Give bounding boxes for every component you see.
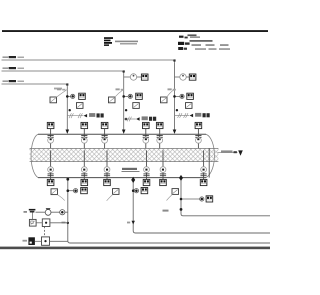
- control valve body: [45, 210, 51, 216]
- signal line C3: [175, 115, 190, 117]
- valve box A2: [50, 97, 57, 103]
- bottoms line E (x=133.2): [133, 178, 270, 233]
- bottom border bar: [0, 247, 270, 250]
- flanges: [201, 173, 207, 175]
- tap wire C y96: [175, 95, 180, 97]
- leader wire: [107, 194, 113, 200]
- flanges: [160, 173, 166, 175]
- junction dot B3: [125, 118, 128, 121]
- vessel right head: [206, 134, 214, 177]
- cluster note: [24, 211, 28, 213]
- dip tube: [162, 150, 164, 179]
- drop line C: [174, 62, 176, 129]
- tag text C3: [195, 113, 201, 117]
- level box T84.3: [81, 122, 88, 128]
- display box B1: [141, 74, 148, 80]
- level box T159.7: [156, 122, 163, 128]
- title block text right: [188, 34, 197, 36]
- arrowhead A3: [84, 114, 88, 117]
- display box F: [206, 196, 213, 202]
- spec break triangle: [238, 150, 243, 155]
- level box B203.6: [200, 179, 207, 185]
- dip tube: [203, 150, 205, 179]
- dip tube: [106, 150, 108, 179]
- valve label B: [116, 88, 120, 90]
- check valve: [60, 210, 65, 215]
- logic box A2b: [77, 103, 84, 109]
- arrowhead C3: [190, 114, 194, 117]
- wire: [137, 76, 142, 78]
- overflow tag: [221, 150, 233, 152]
- leader wire: [167, 89, 175, 97]
- internal circle: [144, 167, 150, 173]
- display box D: [81, 188, 88, 194]
- valve box C2: [161, 97, 168, 103]
- tap wire F y199: [181, 198, 200, 200]
- internal circle: [201, 167, 207, 173]
- display box C1: [189, 74, 196, 80]
- motor box dark: [28, 237, 35, 245]
- valve slash: [184, 113, 188, 118]
- level box B163.0: [160, 179, 167, 185]
- internal circle: [48, 167, 54, 173]
- title block logo right: [178, 36, 190, 50]
- feed line 2: [2, 71, 124, 73]
- flanges: [104, 173, 110, 175]
- control valve actuator: [46, 208, 51, 211]
- internal circle: [81, 137, 87, 143]
- leader wire: [115, 89, 124, 97]
- arrowhead B3: [136, 117, 140, 120]
- pump box 2: [42, 219, 50, 227]
- arrow E: [132, 221, 135, 225]
- bottoms line D (x=67.8): [68, 178, 270, 243]
- drop line B: [123, 73, 125, 129]
- internal circle: [102, 137, 108, 143]
- nozzle diamond E: [131, 177, 135, 183]
- transmitter circle B2: [128, 94, 132, 98]
- feed line 3: [2, 84, 68, 86]
- level box B84.3: [81, 179, 88, 185]
- feed line 3 label: [3, 80, 9, 82]
- vessel shell top: [38, 133, 206, 135]
- wire: [186, 76, 189, 78]
- tag text A3: [89, 113, 95, 117]
- valve slash: [78, 113, 82, 118]
- dip tube: [83, 150, 85, 179]
- signal line A3: [67, 115, 83, 117]
- display box E: [141, 188, 148, 194]
- pump box 1: [29, 219, 36, 226]
- junction dot F: [180, 208, 183, 211]
- tap wire B y96: [124, 95, 129, 97]
- stem: [50, 129, 52, 149]
- internal circle: [157, 137, 163, 143]
- tap wire D y190: [68, 190, 74, 192]
- cluster note 2: [23, 240, 28, 242]
- dip tube: [50, 150, 52, 179]
- vessel label: [122, 168, 137, 170]
- stem: [159, 129, 161, 149]
- drop line C arrow: [173, 130, 177, 134]
- wire to main line: [50, 240, 68, 242]
- overflow line right: [218, 152, 238, 154]
- display box B2: [136, 93, 143, 99]
- junction dot: [176, 109, 178, 111]
- leader wire: [167, 194, 173, 200]
- wire: [35, 240, 42, 242]
- stem scribble to pump box: [32, 213, 34, 220]
- nozzle diamond F: [179, 175, 183, 181]
- flanges: [143, 173, 149, 175]
- junction dot: [69, 109, 71, 111]
- valve box D2: [51, 189, 58, 195]
- leader wire: [58, 195, 65, 201]
- valve slash: [178, 113, 182, 118]
- valve label C: [168, 88, 172, 90]
- level box B146.5: [143, 179, 150, 185]
- title text left: [115, 41, 138, 43]
- note E: [127, 222, 130, 224]
- vessel shell bottom: [38, 177, 206, 179]
- controller circle C1: [180, 74, 186, 80]
- note F: [163, 210, 169, 212]
- transmitter circle C2: [180, 94, 184, 98]
- drop line B arrow: [122, 130, 126, 134]
- tag text B3: [142, 116, 148, 120]
- internal circle: [48, 137, 54, 143]
- valve slash: [127, 117, 131, 122]
- leader wire: [56, 89, 67, 97]
- stem: [145, 129, 147, 149]
- bottoms line F (x=181): [181, 178, 270, 216]
- line 3 corner note: [54, 88, 62, 90]
- hand valve row wire: [36, 211, 68, 213]
- dashed link down: [44, 227, 46, 238]
- level box B50.6: [47, 179, 54, 185]
- display box C2: [187, 93, 194, 99]
- stem: [197, 129, 199, 149]
- transmitter D: [74, 189, 78, 193]
- packing bed hatch: [30, 148, 219, 161]
- valve box E2: [113, 189, 120, 195]
- level box T145.8: [143, 122, 150, 128]
- internal circle: [104, 167, 110, 173]
- solenoid glyph: [29, 209, 36, 213]
- junction dot: [125, 109, 127, 111]
- feed line 1 label: [3, 56, 9, 58]
- tap wire B y77: [124, 76, 131, 78]
- valve label A: [57, 88, 61, 90]
- tap wire C y77: [175, 76, 180, 78]
- tap wire E y190: [133, 190, 134, 192]
- feed line 2 label: [3, 67, 9, 69]
- valve box B2: [109, 97, 116, 103]
- transmitter circle A2: [71, 94, 75, 98]
- flanges: [81, 173, 87, 175]
- signal line B3: [124, 118, 136, 120]
- top border bar: [2, 30, 268, 32]
- logic box C2b: [186, 103, 193, 109]
- internal circle: [196, 137, 202, 143]
- junction tick: [67, 222, 69, 224]
- tap wire A y96: [67, 95, 70, 97]
- pump box 3: [42, 237, 50, 245]
- internal circle: [143, 137, 149, 143]
- internal baffle: [208, 148, 210, 177]
- stem: [104, 129, 106, 149]
- internal circle: [81, 167, 87, 173]
- internal circle: [160, 167, 166, 173]
- wire to main line: [50, 222, 68, 224]
- valve box F2: [172, 189, 179, 195]
- transmitter E: [134, 189, 138, 193]
- dip tube: [146, 150, 148, 179]
- display box A2: [79, 93, 86, 99]
- stem: [83, 129, 85, 149]
- valve slash: [69, 113, 73, 118]
- drop line A arrow: [66, 130, 70, 134]
- logic box B2b: [133, 103, 140, 109]
- level box T104.6: [101, 122, 108, 128]
- transmitter F: [200, 197, 204, 201]
- drop line A: [66, 86, 68, 129]
- title block logo left: [104, 37, 113, 46]
- wire: [36, 222, 42, 224]
- flanges: [48, 173, 54, 175]
- junction dot: [66, 178, 69, 181]
- level box T50.6: [47, 122, 54, 128]
- level box B107.0: [104, 179, 111, 185]
- feed line 1: [2, 60, 175, 62]
- level box T198.4: [195, 122, 202, 128]
- controller circle B1: [130, 74, 136, 80]
- vessel left head: [31, 134, 38, 177]
